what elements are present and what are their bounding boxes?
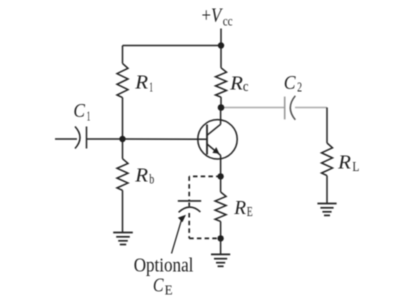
- resistor Rc: [216, 68, 227, 97]
- wire dashed bottom: [189, 237, 220, 239]
- resistor R1: [117, 63, 128, 97]
- label Optional CE pointer arrow shaft: [172, 220, 182, 254]
- label Rb: [134, 164, 154, 187]
- svg-text:Optional: Optional: [134, 254, 194, 276]
- wire dashed top (CE branch): [189, 175, 220, 177]
- label RL: [337, 152, 359, 175]
- svg-text:L: L: [352, 160, 359, 175]
- capacitor C1 curved plate: [75, 127, 80, 149]
- wire base node down to Rb: [122, 139, 124, 159]
- capacitor C2 straight plate: [284, 97, 286, 120]
- wire C1 to base node: [87, 138, 123, 140]
- svg-text:c: c: [243, 79, 249, 95]
- capacitor C1 label: [73, 100, 90, 125]
- wire dashed left lower: [188, 213, 190, 238]
- node RE bottom junction dot: [217, 235, 223, 241]
- capacitor CE straight plate: [178, 200, 201, 202]
- wire RE to bottom node: [220, 221, 222, 238]
- node emitter junction dot: [217, 173, 223, 179]
- svg-text:1: 1: [149, 81, 153, 96]
- svg-text:R: R: [134, 71, 148, 93]
- node base junction dot: [119, 136, 125, 142]
- wire C2 to corner (gray): [295, 107, 327, 109]
- transistor Q1 circle: [198, 120, 237, 159]
- transistor Q1 base bar: [206, 125, 208, 155]
- ground (RL): [317, 204, 336, 216]
- resistor RL: [322, 143, 333, 176]
- label RE: [233, 197, 252, 220]
- resistor Rb: [117, 159, 128, 191]
- capacitor CE curved plate: [179, 207, 201, 212]
- svg-text:R: R: [134, 164, 148, 186]
- wire RL to ground: [326, 176, 328, 204]
- label R1: [134, 71, 153, 95]
- transistor Q1 emitter lead: [207, 144, 221, 155]
- svg-text:E: E: [247, 205, 253, 220]
- wire left branch top stub: [122, 46, 124, 64]
- svg-text:C: C: [73, 100, 85, 122]
- svg-text:C: C: [284, 72, 296, 94]
- transistor Q1 collector lead: [207, 124, 221, 135]
- resistor RE: [215, 192, 226, 221]
- transistor Q1 emitter arrowhead: [212, 147, 219, 154]
- label Optional CE pointer arrowhead: [178, 215, 186, 223]
- wire R1 bottom to base node: [122, 98, 124, 140]
- capacitor C2 curved plate: [290, 96, 295, 120]
- svg-text:R: R: [337, 152, 351, 174]
- wire base node to transistor base: [123, 138, 207, 140]
- wire Rb to ground: [122, 190, 124, 232]
- node +Vcc label: [202, 4, 233, 29]
- svg-text:C: C: [153, 274, 164, 296]
- label Rc: [229, 72, 249, 94]
- svg-text:R: R: [233, 197, 246, 219]
- wire dashed left mid stub: [188, 203, 190, 207]
- label C2: [284, 72, 302, 95]
- wire emitter node to RE: [220, 176, 222, 192]
- wire top horizontal: [123, 45, 222, 47]
- wire Rc to collector node: [220, 97, 222, 108]
- svg-text:b: b: [149, 173, 154, 188]
- svg-text:cc: cc: [223, 14, 233, 29]
- wire collector node to C2 (gray): [221, 107, 284, 109]
- wire Vcc node down to Rc: [220, 46, 222, 68]
- ground (RE): [211, 254, 230, 266]
- ground (Rb): [113, 233, 133, 245]
- svg-text:+V: +V: [202, 4, 224, 26]
- svg-text:R: R: [229, 72, 243, 94]
- wire collector node into transistor: [220, 108, 222, 125]
- wire corner down to RL: [326, 108, 328, 144]
- svg-text:E: E: [165, 283, 173, 298]
- wire input: [55, 138, 77, 140]
- wire emitter down: [220, 155, 222, 176]
- svg-text:2: 2: [297, 80, 302, 95]
- wire bottom node to ground: [220, 238, 222, 254]
- node collector junction dot: [218, 104, 225, 111]
- capacitor C1 straight plate: [86, 127, 88, 149]
- wire dashed left upper: [188, 176, 190, 201]
- node Vcc junction dot: [218, 42, 224, 48]
- svg-text:1: 1: [87, 110, 91, 125]
- label Optional: [134, 254, 194, 298]
- wire Vcc stub: [220, 29, 222, 46]
